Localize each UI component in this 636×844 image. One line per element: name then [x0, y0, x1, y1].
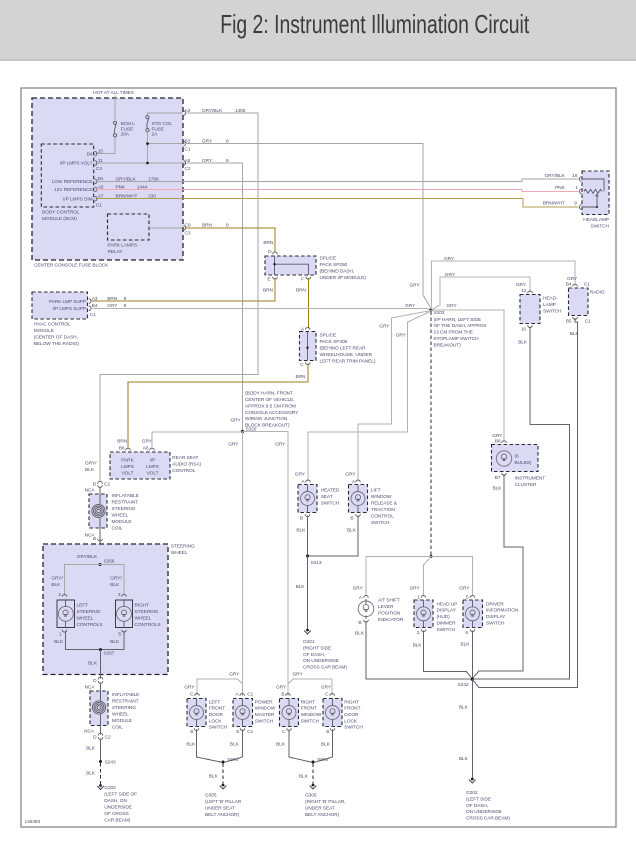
wire BLK radio B5 to S242 [473, 318, 578, 687]
HVAC pin B4 I/P LMPS SUPP [89, 306, 91, 311]
splice pack SP409 box [300, 332, 317, 361]
left steering wheel controls box [57, 600, 75, 628]
wire BLK S213 to G201 [307, 556, 309, 629]
headlamp switch internal resistor [584, 189, 602, 193]
svg-text:6: 6 [465, 630, 468, 636]
A/T shift pin B [364, 620, 369, 622]
left steering wheel controls pin 2 [62, 594, 67, 596]
svg-text:BLK: BLK [276, 742, 286, 748]
ground G305 left [222, 784, 225, 787]
coil1 connector B/C2 [98, 481, 103, 483]
inflatable restraint steering wheel module coil box 1 [89, 494, 107, 528]
fuse BCM L 20A [113, 121, 116, 124]
svg-text:WHEELHOUSE, UNDER: WHEELHOUSE, UNDER [320, 352, 373, 358]
driver information display switch box [463, 600, 483, 628]
svg-text:13 CM FROM THE: 13 CM FROM THE [434, 330, 473, 336]
right steering wheel controls pin 3 [122, 594, 127, 596]
svg-text:NCA: NCA [85, 685, 96, 691]
svg-text:BRN: BRN [296, 287, 307, 293]
svg-text:WINDOW: WINDOW [371, 494, 392, 500]
svg-text:GRY: GRY [184, 685, 195, 691]
wire BLK right control to S267 [101, 631, 125, 650]
svg-text:INFORMATION: INFORMATION [486, 608, 519, 614]
park lamps relay box [108, 214, 150, 240]
cluster pin B8 [502, 441, 507, 443]
wire BLK heated seat B to S213 [307, 516, 309, 557]
radio box [569, 288, 589, 316]
svg-text:STEERING: STEERING [171, 544, 195, 550]
svg-text:SWITCH: SWITCH [209, 725, 228, 731]
svg-text:HEAD UP: HEAD UP [437, 601, 458, 607]
svg-text:(HUD): (HUD) [437, 614, 451, 620]
svg-text:BRN: BRN [117, 439, 128, 445]
wire GRY 8 A6 to S320 [242, 163, 244, 430]
svg-text:1: 1 [575, 185, 578, 191]
svg-text:BLK: BLK [296, 528, 306, 534]
svg-text:MODULE: MODULE [112, 519, 132, 525]
svg-text:SWITCH: SWITCH [255, 718, 274, 724]
svg-text:SWITCH: SWITCH [344, 725, 363, 731]
svg-text:PNK: PNK [116, 184, 127, 190]
svg-text:GRY: GRY [410, 283, 421, 289]
wire A3 feed from fuse STG COL [148, 113, 183, 115]
svg-text:LOCK: LOCK [344, 718, 358, 724]
svg-text:B: B [326, 729, 329, 735]
svg-text:CENTER OF VEHICLE,: CENTER OF VEHICLE, [245, 397, 294, 403]
svg-text:GRY: GRY [295, 472, 306, 478]
svg-text:ON UNDERSIDE: ON UNDERSIDE [466, 809, 502, 815]
wire BLK left door lock B to S504 [197, 730, 224, 763]
svg-text:(6: (6 [515, 454, 520, 460]
svg-text:GRY: GRY [447, 303, 458, 309]
wire BLK dashed S243 to G202 [100, 763, 102, 784]
S213 junction dot [306, 555, 309, 558]
wire GRY S203 to instrument cluster B8 [431, 310, 504, 442]
wire GRY 8 B3 to S203 [185, 144, 432, 309]
wire GRY S320 branch down-left column [242, 432, 244, 697]
head up display dimmer switch box [414, 600, 433, 628]
BCM pin A7 I/P LMPS DIM [95, 196, 97, 201]
svg-text:BRN: BRN [296, 374, 307, 380]
svg-text:BODY CONTROL: BODY CONTROL [42, 210, 80, 216]
lift window lamp [351, 492, 365, 506]
heated seat switch box [298, 485, 317, 513]
right controls lamp [117, 606, 132, 621]
svg-text:FRONT: FRONT [344, 706, 360, 712]
wire GRY S203 to heated seat switch A [308, 311, 432, 482]
svg-text:BLK: BLK [296, 584, 306, 590]
svg-text:C: C [300, 362, 304, 368]
coil 2 symbol [100, 683, 102, 702]
svg-text:RELAY: RELAY [108, 249, 124, 255]
svg-text:LIFT: LIFT [371, 488, 381, 494]
svg-text:GRY/BLK: GRY/BLK [116, 176, 137, 182]
svg-text:BLK: BLK [347, 528, 357, 534]
svg-text:SWITCH: SWITCH [591, 224, 610, 230]
svg-text:B: B [300, 516, 303, 522]
svg-text:LEFT: LEFT [77, 603, 89, 609]
svg-text:B: B [190, 729, 193, 735]
headlamp switch box [582, 171, 609, 215]
svg-text:WIRING JUNCTION: WIRING JUNCTION [245, 416, 288, 422]
svg-text:C3: C3 [185, 231, 191, 237]
wire coil1 to S266 [99, 528, 101, 565]
svg-text:BLK: BLK [51, 582, 61, 588]
svg-text:FUSE: FUSE [152, 126, 164, 132]
wire junction to B3 [148, 143, 183, 145]
wire BLK power window E to S504 [223, 730, 243, 763]
header band [0, 0, 636, 61]
svg-text:GRY: GRY [321, 685, 332, 691]
left front door lock pin C [195, 694, 200, 696]
svg-text:C: C [325, 692, 329, 698]
svg-text:(BEHIND DASH,: (BEHIND DASH, [320, 269, 355, 275]
svg-text:CONTROL: CONTROL [371, 514, 394, 520]
svg-text:B5: B5 [566, 319, 572, 325]
ground G202 right [471, 778, 474, 781]
right front window pin C [287, 728, 292, 730]
inflatable restraint steering wheel module coil box 2 [90, 691, 108, 726]
svg-text:CAR BEAM): CAR BEAM) [104, 818, 130, 824]
svg-text:CONTROLS: CONTROLS [135, 622, 161, 628]
svg-text:SPLICE: SPLICE [320, 333, 337, 339]
wire relay to C9 [149, 227, 183, 229]
svg-text:OF DASH,: OF DASH, [466, 803, 488, 809]
BCM pin A5 12V REFERENCE [95, 187, 97, 192]
svg-text:GRY: GRY [410, 586, 421, 592]
svg-text:BRN/WHT: BRN/WHT [543, 201, 565, 207]
svg-text:SPLICE: SPLICE [320, 256, 337, 262]
svg-text:C1: C1 [247, 729, 253, 735]
wire BLK S267 down to coil2 [100, 650, 102, 679]
svg-text:INSTRUMENT: INSTRUMENT [515, 476, 546, 482]
headlamp switch pin 1 [579, 189, 581, 194]
S320 junction dot [241, 430, 244, 433]
coil2 connector D [98, 677, 103, 679]
right front door lock pin C [330, 694, 335, 696]
headlamp switch pin 16 [579, 177, 581, 182]
right door lock lamp [326, 706, 340, 720]
svg-text:(CENTER OF DASH,: (CENTER OF DASH, [34, 335, 78, 341]
svg-text:S266: S266 [104, 559, 115, 565]
driver info lamp [466, 607, 480, 621]
svg-text:D: D [93, 678, 97, 684]
right steering wheel controls box [116, 600, 133, 628]
svg-text:S203: S203 [434, 310, 445, 316]
svg-text:PARK: PARK [121, 458, 134, 464]
svg-text:DRIVER: DRIVER [486, 601, 504, 607]
svg-text:RIGHT: RIGHT [344, 699, 359, 705]
svg-text:(BODY HARN, FRONT: (BODY HARN, FRONT [245, 391, 293, 397]
junction dot fuse/A6 wire [146, 162, 149, 165]
svg-text:SEAT: SEAT [321, 494, 333, 500]
svg-text:DOOR: DOOR [209, 712, 224, 718]
svg-text:G201: G201 [303, 639, 315, 645]
svg-text:WINDOW: WINDOW [255, 706, 276, 712]
svg-text:C1: C1 [90, 312, 96, 318]
coil1 lower connector B [98, 539, 103, 541]
svg-text:LAMP: LAMP [543, 302, 556, 308]
power window pin E [240, 728, 245, 730]
svg-text:BLK: BLK [459, 756, 469, 762]
steering wheel box [43, 544, 168, 675]
wire BRN SP409 C to RSA B6 [128, 364, 308, 449]
svg-text:A6: A6 [143, 446, 149, 452]
BCM pin B1 LOW REFERENCE [95, 179, 97, 184]
svg-text:RADIO: RADIO [590, 290, 605, 296]
svg-text:FRONT: FRONT [301, 706, 317, 712]
ground G201 [306, 629, 309, 632]
svg-text:HVAC CONTROL: HVAC CONTROL [34, 322, 71, 328]
svg-text:(RIGHT 'B' PILLAR,: (RIGHT 'B' PILLAR, [305, 799, 346, 805]
power window master switch box [233, 699, 253, 727]
wire BLK cluster B7 to S242 [473, 474, 524, 678]
svg-text:BLK: BLK [86, 771, 96, 777]
svg-text:INFLATABLE: INFLATABLE [112, 692, 139, 698]
svg-text:CONTROLS: CONTROLS [77, 622, 103, 628]
svg-text:12V REFERENCE: 12V REFERENCE [54, 187, 92, 193]
svg-text:B: B [281, 692, 284, 698]
svg-text:BRN/WHT: BRN/WHT [116, 194, 138, 200]
svg-text:11: 11 [98, 158, 103, 164]
HVAC pin A3 PARK LMP SUPP [89, 299, 91, 304]
svg-text:S267: S267 [103, 651, 114, 657]
pin B3/C1 fuse block output [183, 141, 185, 146]
headlamp switch internal rheostat wire pin16 [583, 179, 604, 191]
svg-text:BLK: BLK [570, 331, 580, 337]
lift window release and traction control switch box [349, 485, 368, 513]
wire BLK headlamp pin 10 to S242 [474, 327, 570, 680]
svg-text:BLK: BLK [299, 774, 309, 780]
svg-text:VOLT: VOLT [147, 471, 159, 477]
wire BLK right front window C to S604 [289, 730, 313, 763]
svg-text:STG COL: STG COL [152, 121, 173, 127]
svg-text:A/T SHIFT: A/T SHIFT [378, 598, 400, 604]
svg-text:LMPS: LMPS [121, 464, 134, 470]
svg-text:BCM L: BCM L [121, 121, 136, 127]
svg-text:RESTRAINT: RESTRAINT [112, 699, 139, 705]
svg-text:3: 3 [118, 592, 121, 598]
svg-text:1: 1 [417, 595, 420, 601]
RSA pin B6 [126, 448, 131, 450]
wire from HOT AT ALL TIMES to fuse BCM L [114, 96, 116, 121]
center console fuse block box [32, 98, 183, 260]
svg-text:G305: G305 [205, 793, 217, 799]
svg-text:NCA: NCA [84, 729, 95, 735]
left controls pin 1 [62, 630, 67, 632]
svg-text:WHEEL: WHEEL [112, 513, 129, 519]
svg-text:PARK LMP SUPP: PARK LMP SUPP [49, 299, 86, 305]
svg-text:B4: B4 [566, 282, 572, 288]
svg-text:BLK: BLK [459, 705, 469, 711]
svg-text:GRY: GRY [567, 276, 578, 282]
svg-text:12: 12 [521, 288, 527, 294]
left door lock pin B [194, 728, 199, 730]
wire coil1 connector to coil [99, 487, 101, 495]
wire BLK right door lock B to S604 [313, 730, 333, 763]
svg-text:RIGHT: RIGHT [301, 699, 316, 705]
coil 1 symbol [99, 494, 101, 504]
svg-text:ON UNDERSIDE: ON UNDERSIDE [303, 658, 339, 664]
pin A6/C2 fuse block output [183, 161, 185, 166]
junction dot fuse/B3 [146, 142, 149, 145]
svg-text:BULBS): BULBS) [515, 460, 532, 466]
svg-text:GRY: GRY [276, 685, 287, 691]
wire BLK dashed S604 to G305 right [312, 764, 314, 784]
wire fuse BCM L to BCM pin B4 [96, 136, 116, 154]
svg-text:BLK: BLK [461, 641, 471, 647]
svg-text:B: B [358, 620, 361, 626]
wire GRY headlamp switch pin 12 to S203 [432, 277, 531, 310]
wire BLK coil2 to S243 [100, 739, 102, 762]
svg-text:BLK: BLK [493, 486, 503, 492]
svg-text:BRN: BRN [107, 296, 118, 302]
svg-text:DISPLAY: DISPLAY [486, 614, 506, 620]
svg-text:C: C [282, 729, 286, 735]
right front window lamp [282, 706, 296, 720]
right door lock pin B [330, 728, 335, 730]
svg-text:POSITION: POSITION [378, 611, 401, 617]
svg-text:CROSS CAR BEAM): CROSS CAR BEAM) [303, 665, 347, 671]
svg-text:GRY: GRY [142, 439, 153, 445]
left controls lamp [58, 606, 73, 621]
svg-text:GRY: GRY [345, 472, 356, 478]
wire S266 to right control pin 3 [100, 565, 124, 596]
svg-text:BREAKOUT): BREAKOUT) [434, 342, 462, 348]
svg-text:LEVER: LEVER [378, 604, 394, 610]
left door lock lamp [190, 706, 204, 720]
svg-text:MODULE (BCM): MODULE (BCM) [42, 216, 77, 222]
svg-text:(RIGHT SIDE: (RIGHT SIDE [303, 645, 331, 651]
pin A3 fuse block output [183, 111, 185, 116]
lift window pin B [356, 514, 361, 516]
svg-text:PACK SP250: PACK SP250 [320, 262, 348, 268]
svg-text:SWITCH: SWITCH [543, 309, 562, 315]
svg-text:HOT AT ALL TIMES: HOT AT ALL TIMES [93, 90, 134, 96]
svg-text:C1: C1 [585, 319, 591, 325]
svg-text:GRY: GRY [516, 282, 527, 288]
S203 callout dashed line down [430, 312, 432, 556]
svg-text:GRY/: GRY/ [110, 576, 122, 582]
svg-text:1: 1 [59, 631, 62, 637]
svg-text:GRY: GRY [492, 433, 503, 439]
instrument cluster box [492, 445, 539, 472]
svg-text:GRY: GRY [229, 672, 240, 678]
svg-text:B: B [93, 481, 96, 487]
svg-text:VOLT: VOLT [122, 471, 134, 477]
svg-text:STEERING: STEERING [77, 609, 101, 615]
title [95, 9, 636, 40]
svg-text:CONTROL: CONTROL [172, 468, 195, 474]
svg-text:FUSE: FUSE [121, 126, 133, 132]
svg-text:A3: A3 [92, 296, 98, 302]
wire GRY branch to right front door lock C [288, 679, 332, 695]
wire BLK HUD 2 to S242 [424, 631, 473, 679]
svg-text:SWITCH: SWITCH [486, 621, 505, 627]
svg-text:B7: B7 [495, 475, 501, 481]
svg-text:CONSOLE ACCESSORY: CONSOLE ACCESSORY [245, 410, 299, 416]
svg-text:STOPLAMP SWITCH: STOPLAMP SWITCH [434, 336, 480, 342]
svg-text:GRY: GRY [379, 324, 390, 330]
RSA pin A6 [150, 448, 155, 450]
svg-text:GRY/: GRY/ [85, 461, 97, 467]
svg-text:MODULE: MODULE [112, 718, 132, 724]
wire BRN/WHT 230 from A7 to headlamp switch pin 9 [96, 199, 579, 207]
svg-text:CLUSTER: CLUSTER [515, 482, 537, 488]
SP409 pin C [306, 362, 311, 364]
svg-text:C2: C2 [105, 735, 111, 741]
svg-text:BLK: BLK [321, 742, 331, 748]
svg-text:5: 5 [118, 631, 121, 637]
S504 junction dot [222, 761, 225, 764]
svg-text:D: D [268, 249, 272, 255]
svg-text:G202: G202 [466, 790, 478, 796]
svg-text:LMPS: LMPS [146, 464, 159, 470]
svg-text:RESTRAINT: RESTRAINT [112, 500, 139, 506]
svg-text:C2: C2 [104, 481, 110, 487]
svg-text:GRY: GRY [396, 333, 407, 339]
svg-text:INDICATOR: INDICATOR [378, 617, 404, 623]
svg-text:C1: C1 [247, 692, 253, 698]
svg-text:UNDER SEAT: UNDER SEAT [305, 806, 335, 812]
headlamp illum pin 10 [528, 325, 533, 327]
right front door lock switch box [323, 699, 342, 727]
right front window switch box [280, 699, 299, 727]
svg-text:WINDOW: WINDOW [301, 712, 322, 718]
svg-text:I/P LMPS DIM: I/P LMPS DIM [63, 196, 92, 202]
svg-text:BRN: BRN [263, 240, 274, 246]
svg-text:GRY: GRY [231, 418, 242, 424]
svg-text:CENTER CONSOLE FUSE BLOCK: CENTER CONSOLE FUSE BLOCK [34, 263, 109, 269]
svg-text:C1: C1 [96, 203, 102, 209]
svg-text:OF THE DASH, APPROX: OF THE DASH, APPROX [434, 323, 488, 329]
svg-text:BRN: BRN [263, 287, 274, 293]
body control module (BCM) box [41, 144, 93, 207]
svg-text:GRY/BLK: GRY/BLK [77, 554, 98, 560]
svg-text:10: 10 [98, 149, 104, 155]
HUD lamp [417, 607, 431, 621]
svg-text:SWITCH: SWITCH [371, 520, 390, 526]
svg-text:AUDIO (RSA): AUDIO (RSA) [172, 462, 201, 468]
svg-text:SWITCH: SWITCH [321, 501, 340, 507]
svg-text:B4: B4 [87, 151, 93, 157]
wire BLK lift window B to S213 [309, 516, 358, 556]
svg-text:WHEEL: WHEEL [77, 616, 94, 622]
svg-text:(LEFT SIDE: (LEFT SIDE [466, 796, 491, 802]
svg-text:GRY/BLK: GRY/BLK [545, 173, 566, 179]
svg-text:DASH, ON: DASH, ON [104, 798, 127, 804]
left front door lock switch box [187, 699, 206, 727]
headlamp switch pin 9 [579, 205, 581, 210]
svg-text:230: 230 [148, 194, 156, 200]
svg-text:STEERING: STEERING [112, 705, 136, 711]
pin I/P LMPS VOLT connector [95, 161, 97, 166]
svg-text:GRY: GRY [405, 303, 416, 309]
svg-text:MODULE: MODULE [34, 328, 54, 334]
svg-text:C2: C2 [185, 166, 191, 172]
S203 junction dot [429, 308, 432, 311]
svg-text:COIL: COIL [112, 526, 123, 532]
svg-text:BLK: BLK [186, 742, 196, 748]
splice pack SP250 box [265, 256, 316, 275]
headlamp switch internal wiper arrow [583, 196, 597, 207]
svg-text:GRY: GRY [444, 256, 455, 262]
svg-text:LEFT: LEFT [209, 699, 221, 705]
svg-text:BELT ANCHOR): BELT ANCHOR) [305, 812, 340, 818]
ground G202 left [99, 784, 102, 787]
wire GRY/BLK 1798 from B1 to headlamp switch pin 16 [96, 179, 579, 181]
svg-text:FRONT: FRONT [209, 706, 225, 712]
